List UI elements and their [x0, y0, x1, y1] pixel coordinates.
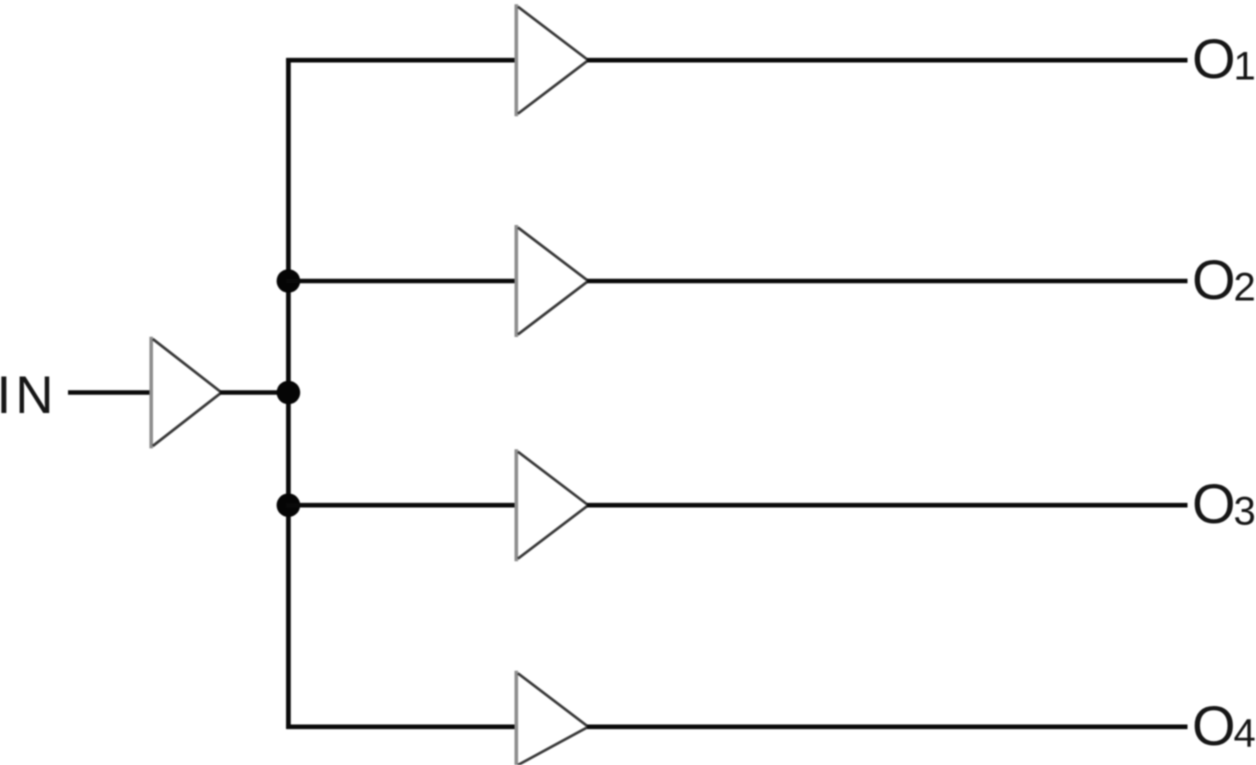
svg-text:2: 2	[1234, 266, 1256, 310]
wire bus to buffer U3	[286, 279, 517, 284]
svg-text:1: 1	[1234, 45, 1256, 89]
svg-text:O: O	[1192, 472, 1236, 535]
svg-text:3: 3	[1234, 490, 1256, 534]
wire U5 output to O4	[587, 724, 1188, 729]
buffer U5	[516, 671, 588, 765]
node O1 label	[1192, 27, 1256, 90]
svg-text:4: 4	[1234, 711, 1256, 755]
wire U4 output to O3	[587, 503, 1188, 508]
wire U1 output to bus	[220, 390, 288, 395]
svg-text:IN: IN	[0, 366, 58, 425]
wire bus to buffer U2	[286, 58, 517, 63]
buffer U2	[516, 4, 588, 116]
buffer U1 (input buffer)	[151, 337, 221, 449]
wire bus to buffer U5	[286, 724, 517, 729]
junction dot row 3	[277, 493, 301, 517]
junction dot row 2	[277, 269, 301, 293]
node O3 label	[1192, 472, 1256, 535]
wire U2 output to O1	[587, 58, 1188, 63]
svg-text:O: O	[1192, 694, 1236, 757]
buffer U4	[516, 449, 588, 561]
wire U3 output to O2	[587, 279, 1188, 284]
wire bus to buffer U4	[286, 503, 517, 508]
node O4 label	[1192, 694, 1256, 757]
wire vertical bus	[286, 58, 291, 729]
svg-text:O: O	[1192, 248, 1236, 311]
node O2 label	[1192, 248, 1256, 311]
wire IN to buffer U1	[68, 390, 152, 395]
svg-text:O: O	[1192, 27, 1236, 90]
junction dot IN row	[277, 381, 301, 405]
buffer U3	[516, 225, 588, 337]
node IN label	[0, 366, 58, 425]
